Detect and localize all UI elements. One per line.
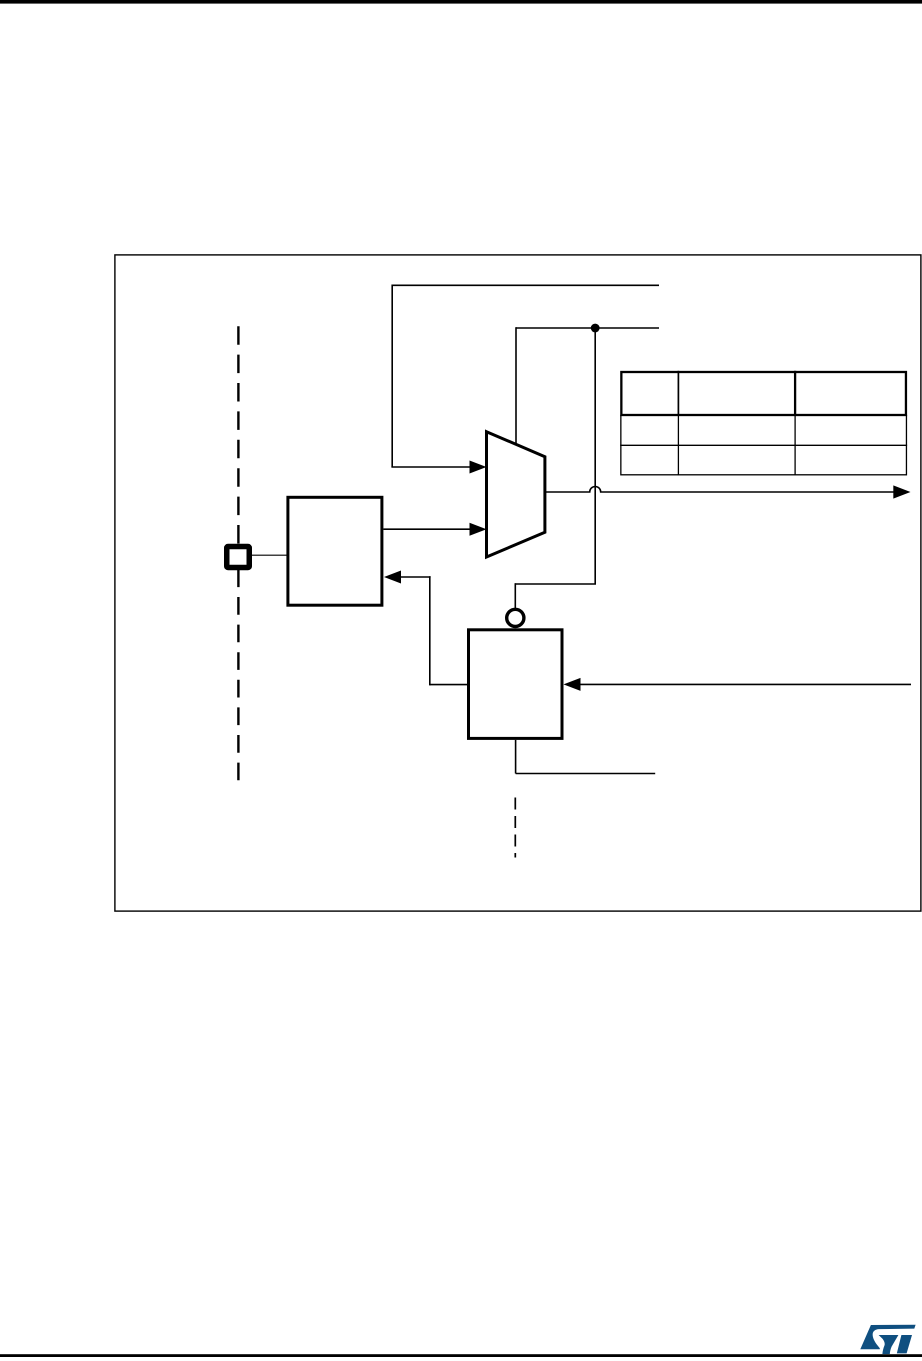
arrowhead into left block xyxy=(384,571,401,584)
table header row xyxy=(621,372,906,415)
table body divider col2/col3 xyxy=(794,416,796,476)
bottom block xyxy=(469,630,563,739)
junction dot xyxy=(591,324,600,333)
dashed pin-boundary line lower part xyxy=(237,569,239,780)
wire: pin to left block xyxy=(252,554,287,556)
arrowhead into bottom block xyxy=(564,678,581,691)
wire: top feedback vertical xyxy=(391,285,393,468)
figure frame xyxy=(115,255,921,911)
bottom rule xyxy=(0,1354,922,1357)
table body divider col1/col2 xyxy=(677,416,679,476)
ST logo xyxy=(860,1325,915,1354)
wire: select net vertical to mux xyxy=(515,327,517,445)
wire: bottom block down xyxy=(515,740,517,774)
pin square xyxy=(227,547,250,568)
arrowhead mux input 2 xyxy=(470,523,487,536)
mux trapezoid xyxy=(487,432,545,557)
wire: vertical between arrow and bottom block xyxy=(429,576,431,685)
wire: into mux input 1 xyxy=(391,466,471,468)
dashed stub below bottom block xyxy=(514,798,516,858)
table header divider col1/col2 xyxy=(677,371,679,416)
wire: vertical into bubble xyxy=(514,583,516,608)
wire: left block to mux input 2 xyxy=(383,528,471,530)
arrowhead mux output xyxy=(893,485,910,498)
wire: top feedback horizontal xyxy=(392,284,659,286)
wire: horizontal to bubble branch xyxy=(515,583,596,585)
table body row divider xyxy=(620,444,907,446)
wire: mux output with hop over vertical xyxy=(545,487,894,492)
wire: horizontal into bottom block left xyxy=(430,684,467,686)
wire: into left block arrow segment xyxy=(401,576,431,578)
table header divider col2/col3 xyxy=(794,371,796,416)
top rule xyxy=(0,0,922,4)
wire: vertical from junction down xyxy=(594,328,596,584)
arrowhead mux input 1 xyxy=(470,461,487,474)
left block xyxy=(288,497,382,605)
inverter bubble xyxy=(507,609,524,626)
wire: long input from right xyxy=(579,683,911,685)
dashed pin-boundary line upper part xyxy=(237,326,239,543)
wire: select net horizontal xyxy=(516,327,659,329)
table body xyxy=(621,416,907,475)
wire: bottom horizontal right xyxy=(516,773,656,775)
